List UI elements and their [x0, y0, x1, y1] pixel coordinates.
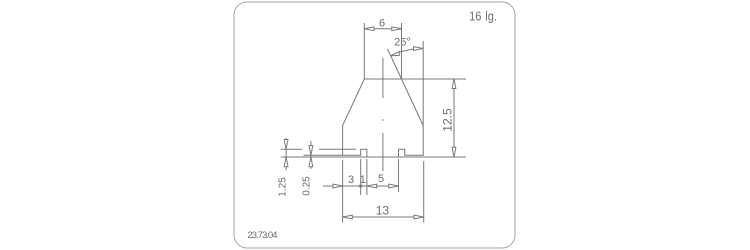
svg-text:13: 13 — [376, 204, 390, 218]
svg-text:16 lg.: 16 lg. — [469, 10, 497, 24]
svg-text:0.25: 0.25 — [302, 176, 313, 196]
svg-text:5: 5 — [378, 173, 384, 185]
svg-text:23.73.04: 23.73.04 — [248, 230, 278, 241]
svg-text:1.25: 1.25 — [278, 177, 289, 197]
svg-text:25°: 25° — [394, 37, 411, 49]
svg-text:6: 6 — [379, 18, 385, 30]
svg-text:3: 3 — [348, 174, 354, 186]
svg-text:1: 1 — [360, 174, 366, 186]
svg-text:12.5: 12.5 — [441, 108, 455, 132]
